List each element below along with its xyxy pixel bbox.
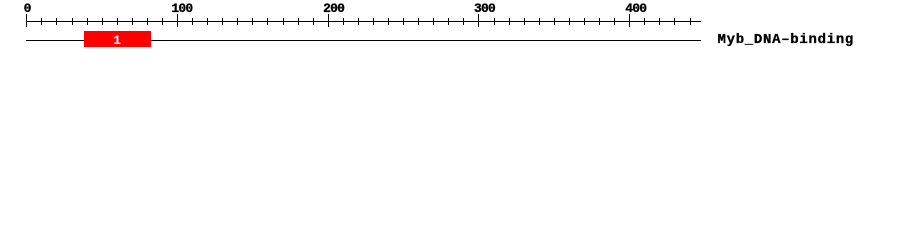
major tick 400	[629, 14, 630, 27]
ruler label 100	[171, 2, 192, 15]
minor tick 440	[690, 18, 691, 25]
minor tick 350	[554, 18, 555, 25]
major tick 100	[177, 14, 178, 27]
ruler label 300	[474, 2, 495, 15]
minor tick 90	[162, 18, 163, 25]
minor tick 160	[267, 18, 268, 25]
minor tick 260	[418, 18, 419, 25]
minor tick 330	[524, 18, 525, 25]
ruler line	[26, 21, 701, 22]
minor tick 420	[659, 18, 660, 25]
minor tick 340	[539, 18, 540, 25]
minor tick 230	[373, 18, 374, 25]
ruler label 400	[625, 2, 646, 15]
minor tick 210	[343, 18, 344, 25]
minor tick 360	[569, 18, 570, 25]
minor tick 50	[102, 18, 103, 25]
minor tick 220	[358, 18, 359, 25]
protein backbone line	[26, 40, 701, 41]
major tick 0	[26, 14, 27, 27]
ruler label 200	[323, 2, 344, 15]
minor tick 170	[283, 18, 284, 25]
minor tick 20	[56, 18, 57, 25]
minor tick 290	[463, 18, 464, 25]
ruler label 0	[24, 2, 31, 15]
minor tick 280	[448, 18, 449, 25]
minor tick 370	[584, 18, 585, 25]
minor tick 310	[494, 18, 495, 25]
minor tick 40	[87, 18, 88, 25]
domain number 1	[84, 34, 151, 47]
major tick 200	[328, 14, 329, 27]
minor tick 430	[674, 18, 675, 25]
minor tick 240	[388, 18, 389, 25]
minor tick 250	[403, 18, 404, 25]
minor tick 140	[237, 18, 238, 25]
minor tick 60	[117, 18, 118, 25]
minor tick 270	[433, 18, 434, 25]
minor tick 410	[644, 18, 645, 25]
minor tick 10	[41, 18, 42, 25]
domain name label Myb_DNA-binding	[718, 33, 855, 47]
minor tick 70	[132, 18, 133, 25]
minor tick 320	[509, 18, 510, 25]
minor tick 150	[252, 18, 253, 25]
major tick 300	[478, 14, 479, 27]
minor tick 110	[192, 18, 193, 25]
minor tick 380	[599, 18, 600, 25]
minor tick 130	[222, 18, 223, 25]
minor tick 390	[614, 18, 615, 25]
minor tick 30	[72, 18, 73, 25]
domain box 1 (red)	[84, 31, 151, 47]
minor tick 180	[298, 18, 299, 25]
minor tick 80	[147, 18, 148, 25]
minor tick 120	[207, 18, 208, 25]
minor tick 190	[313, 18, 314, 25]
